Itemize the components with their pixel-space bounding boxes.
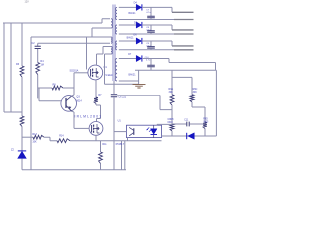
wire cap C7 top stub <box>150 7 152 16</box>
svg-text:R11: R11 <box>102 143 107 146</box>
diode D7 <box>136 55 142 61</box>
wire R11 to ground rail <box>100 164 102 170</box>
optocoupler U1 body <box>127 125 162 137</box>
transformer T1 secondary S3 <box>116 41 117 50</box>
wire R4 to R8 node <box>37 75 39 99</box>
wire output 3 jog <box>171 41 173 46</box>
capacitor C2 <box>35 46 41 48</box>
resistor R11 <box>99 152 103 164</box>
wire output 1 bottom end <box>174 19 194 21</box>
label C8 value <box>146 30 151 32</box>
resistor R13 <box>33 135 44 139</box>
wire W3 top lead <box>103 46 111 48</box>
wire output 3 stub <box>172 45 194 47</box>
svg-text:C6 222: C6 222 <box>118 96 126 99</box>
wire ladder column A top <box>171 70 173 95</box>
wire output 3 bottom end <box>174 49 194 51</box>
wire ladder column B top <box>191 77 193 94</box>
wire BJT base <box>39 100 61 102</box>
wire ladder column A mid <box>171 105 173 124</box>
wire cap C9 bottom stub <box>150 48 152 50</box>
capacitor C9 <box>147 47 155 49</box>
wire zener to bottom rail <box>21 159 23 170</box>
wire cap C7 bottom stub <box>150 18 152 20</box>
wire output 4 jog <box>168 59 170 63</box>
wire top supply rail <box>3 19 110 23</box>
wire aux line upper <box>31 36 111 38</box>
label Q1 <box>103 66 107 69</box>
label D6 <box>134 34 138 37</box>
label C7 value <box>146 12 151 14</box>
svg-text:30K: 30K <box>169 91 174 94</box>
capacitor C8 <box>147 31 155 33</box>
label C8 <box>146 27 150 29</box>
wire output rail <box>135 69 216 71</box>
resistor R9B <box>170 124 174 131</box>
wire output 3 bottom <box>119 49 174 51</box>
transformer T1 primary W3 <box>111 47 112 55</box>
wire big left vertical <box>30 37 32 170</box>
wire feedback row step <box>44 137 57 141</box>
label R13 <box>32 133 37 136</box>
wire cap C8 bottom stub <box>150 33 152 35</box>
wire opto emitter pin <box>127 138 129 141</box>
svg-text:0805: 0805 <box>203 121 209 123</box>
label R11 <box>102 143 107 146</box>
wire cap C10 bottom stub <box>150 67 152 70</box>
transformer T1 primary W1 <box>111 19 113 28</box>
svg-text:12V: 12V <box>25 1 30 4</box>
label R9A value <box>169 91 174 94</box>
wire ladder column A bottom <box>171 131 173 136</box>
svg-text:BAV21: BAV21 <box>129 12 137 15</box>
resistor R14 <box>57 139 70 143</box>
svg-text:IRLML2801: IRLML2801 <box>75 114 102 118</box>
wire feedback row left <box>22 136 33 138</box>
wire C6 down to ground rail <box>113 97 115 170</box>
wire cap C9 top stub <box>150 41 152 46</box>
label D5 type <box>127 37 135 40</box>
wire C2 to R4 <box>37 49 39 63</box>
label R9D value <box>203 121 209 123</box>
wire output 2 top <box>142 24 172 26</box>
zener ZD2 <box>187 133 195 139</box>
svg-text:BAV21: BAV21 <box>129 74 137 77</box>
wire secondary 3 anode lead <box>119 40 136 42</box>
label R4 <box>40 60 44 63</box>
ground symbol <box>133 84 146 88</box>
capacitor C10 <box>147 65 155 67</box>
wire divider tap left <box>172 123 186 125</box>
label D4 type <box>129 12 137 15</box>
svg-text:9014: 9014 <box>76 99 82 102</box>
wire sense line faint <box>117 95 160 97</box>
wire left vertical branch 1 <box>10 23 12 112</box>
wire left vertical branch 0 <box>3 23 5 112</box>
transistor Q3 <box>61 96 77 112</box>
mosfet Q1 <box>88 65 103 80</box>
wire bottom mid rail <box>70 140 162 142</box>
wire primary return riser <box>104 54 106 84</box>
wire secondary 4 anode lead <box>119 58 136 60</box>
wire R7 to Q2 drain <box>96 104 101 122</box>
wire branch 2 upper <box>21 23 23 66</box>
wire output 3 top <box>142 40 172 42</box>
svg-text:C9R8: C9R8 <box>168 119 175 121</box>
wire Q3 collector riser <box>72 73 75 96</box>
resistor R7 <box>94 97 98 104</box>
wire opto input <box>114 131 127 133</box>
wire branch 1 bottom jog <box>4 111 22 113</box>
svg-text:SI2301A: SI2301A <box>70 69 79 72</box>
wire W3 bottom lead <box>105 53 112 55</box>
svg-text:BAV21: BAV21 <box>127 37 135 40</box>
capacitor C6 <box>111 95 117 97</box>
label R8 <box>53 84 57 87</box>
wire ladder column B jog <box>192 102 205 122</box>
resistor R9D <box>203 122 207 129</box>
label D4 <box>134 1 138 4</box>
label R9D <box>203 119 208 121</box>
label input net <box>25 1 30 4</box>
transformer T1 secondary S4 <box>115 59 117 82</box>
wire opto ground drop 2 <box>124 141 126 170</box>
wire output 1 jog <box>171 7 173 12</box>
wire output 1 top <box>142 6 172 8</box>
wire zener row <box>162 135 217 137</box>
label Q3 value <box>76 99 82 102</box>
optocoupler U1 LED <box>146 125 157 137</box>
label R9C <box>193 88 198 91</box>
capacitor C7 <box>147 16 155 18</box>
transformer T1 secondary S2 <box>116 25 118 34</box>
label R13 value <box>32 141 37 144</box>
label D7 <box>128 53 132 56</box>
wire divider tap right <box>190 123 205 125</box>
wire aux line lower <box>38 42 110 44</box>
label Q3 <box>76 96 80 99</box>
resistor R8 <box>52 86 63 90</box>
wire ground riser <box>138 70 140 84</box>
label R9C value <box>193 91 198 94</box>
label U1 <box>118 120 122 123</box>
optocoupler U1 phototransistor <box>129 127 134 135</box>
svg-text:30K: 30K <box>193 91 198 94</box>
wire output 4 long <box>169 63 216 71</box>
label R4 value <box>40 64 43 67</box>
wire gate node horizontal <box>74 72 88 74</box>
wire output 1 bottom <box>119 19 174 21</box>
wire ladder column B bottom <box>204 129 206 137</box>
wire C6 riser <box>113 81 115 95</box>
diode D6 <box>136 38 142 44</box>
label C6 <box>118 96 126 99</box>
wire output 2 jog <box>171 25 173 30</box>
wire output 2 stub <box>172 29 194 31</box>
label C10 value <box>146 60 151 62</box>
wire output 1 stub <box>172 11 194 13</box>
wire W1 bottom lead <box>92 27 111 29</box>
svg-text:R14: R14 <box>59 134 64 137</box>
resistor R4 <box>36 63 40 75</box>
wire R8 right stub <box>63 87 74 89</box>
wire right edge vertical <box>215 70 217 136</box>
label PC817 <box>116 142 125 146</box>
svg-text:1M: 1M <box>40 64 43 67</box>
wire Q2 gate stub <box>74 127 89 129</box>
label C9 value <box>146 46 151 48</box>
zener ZD1 <box>18 151 26 158</box>
label R14 <box>59 134 64 137</box>
wire secondary 2 anode lead <box>119 24 136 26</box>
svg-text:10K: 10K <box>32 141 37 144</box>
wire branch 2 middle <box>21 77 23 116</box>
svg-text:PC817: PC817 <box>116 142 125 146</box>
label R3 <box>16 63 20 66</box>
label D5 <box>134 21 138 24</box>
label R9B <box>168 119 175 121</box>
wire R8 left stub <box>38 87 52 89</box>
resistor R3 <box>20 66 24 77</box>
resistor R2 <box>20 116 24 127</box>
svg-text:R13: R13 <box>32 133 37 136</box>
label C2 <box>32 42 36 45</box>
wire Q1 drain from W3 <box>97 47 104 66</box>
svg-text:R9D: R9D <box>203 119 208 121</box>
label C9 <box>146 43 150 45</box>
wire branch 2 lower <box>21 127 23 151</box>
label D7 type <box>129 74 137 77</box>
diode D4 <box>136 4 142 10</box>
label C10 <box>145 57 150 59</box>
wire secondary 1 anode lead <box>119 6 136 8</box>
label C7 <box>146 9 150 11</box>
wire Q2 source down <box>95 135 97 140</box>
wire ladder crossbar <box>172 76 192 78</box>
resistor R9A <box>170 95 174 105</box>
label R7 <box>98 94 102 97</box>
wire Q1 source down <box>95 80 97 97</box>
mosfet Q2 <box>89 121 103 135</box>
transformer T1 secondary S1 <box>115 7 117 19</box>
label R9A <box>169 88 174 91</box>
capacitor C11 <box>187 122 189 127</box>
wire W1 return vertical <box>91 28 93 37</box>
wire opto anode riser <box>157 123 172 126</box>
diode D5 <box>136 22 142 28</box>
label C11 <box>184 119 189 121</box>
resistor R9C <box>190 95 194 102</box>
wire output 2 bottom <box>119 33 174 35</box>
wire BJT base riser <box>38 88 40 101</box>
wire sense line <box>160 96 172 110</box>
wire primary return <box>105 83 139 85</box>
wire output 4 top <box>142 58 169 60</box>
wire S4 bottom lead <box>119 80 139 82</box>
label T1 <box>104 74 114 77</box>
wire cap C8 top stub <box>150 25 152 31</box>
wire cap C10 top stub <box>150 59 152 66</box>
wire C2 chain top corner <box>37 43 39 46</box>
label R9B value <box>168 122 174 124</box>
label ZD1 <box>11 149 14 152</box>
wire Q3 emitter drop <box>72 111 74 128</box>
wire output 2 bottom end <box>174 33 194 35</box>
wire gate riser from aux <box>86 37 88 70</box>
wire opto ground drop <box>121 141 123 170</box>
label Q2 type <box>75 114 102 118</box>
wire R11 riser <box>100 141 102 152</box>
transformer T1 primary W2 <box>111 37 112 43</box>
wire bottom-left ground rail <box>22 169 126 171</box>
transformer T1 core <box>113 5 115 82</box>
label Q1 type <box>70 69 79 72</box>
